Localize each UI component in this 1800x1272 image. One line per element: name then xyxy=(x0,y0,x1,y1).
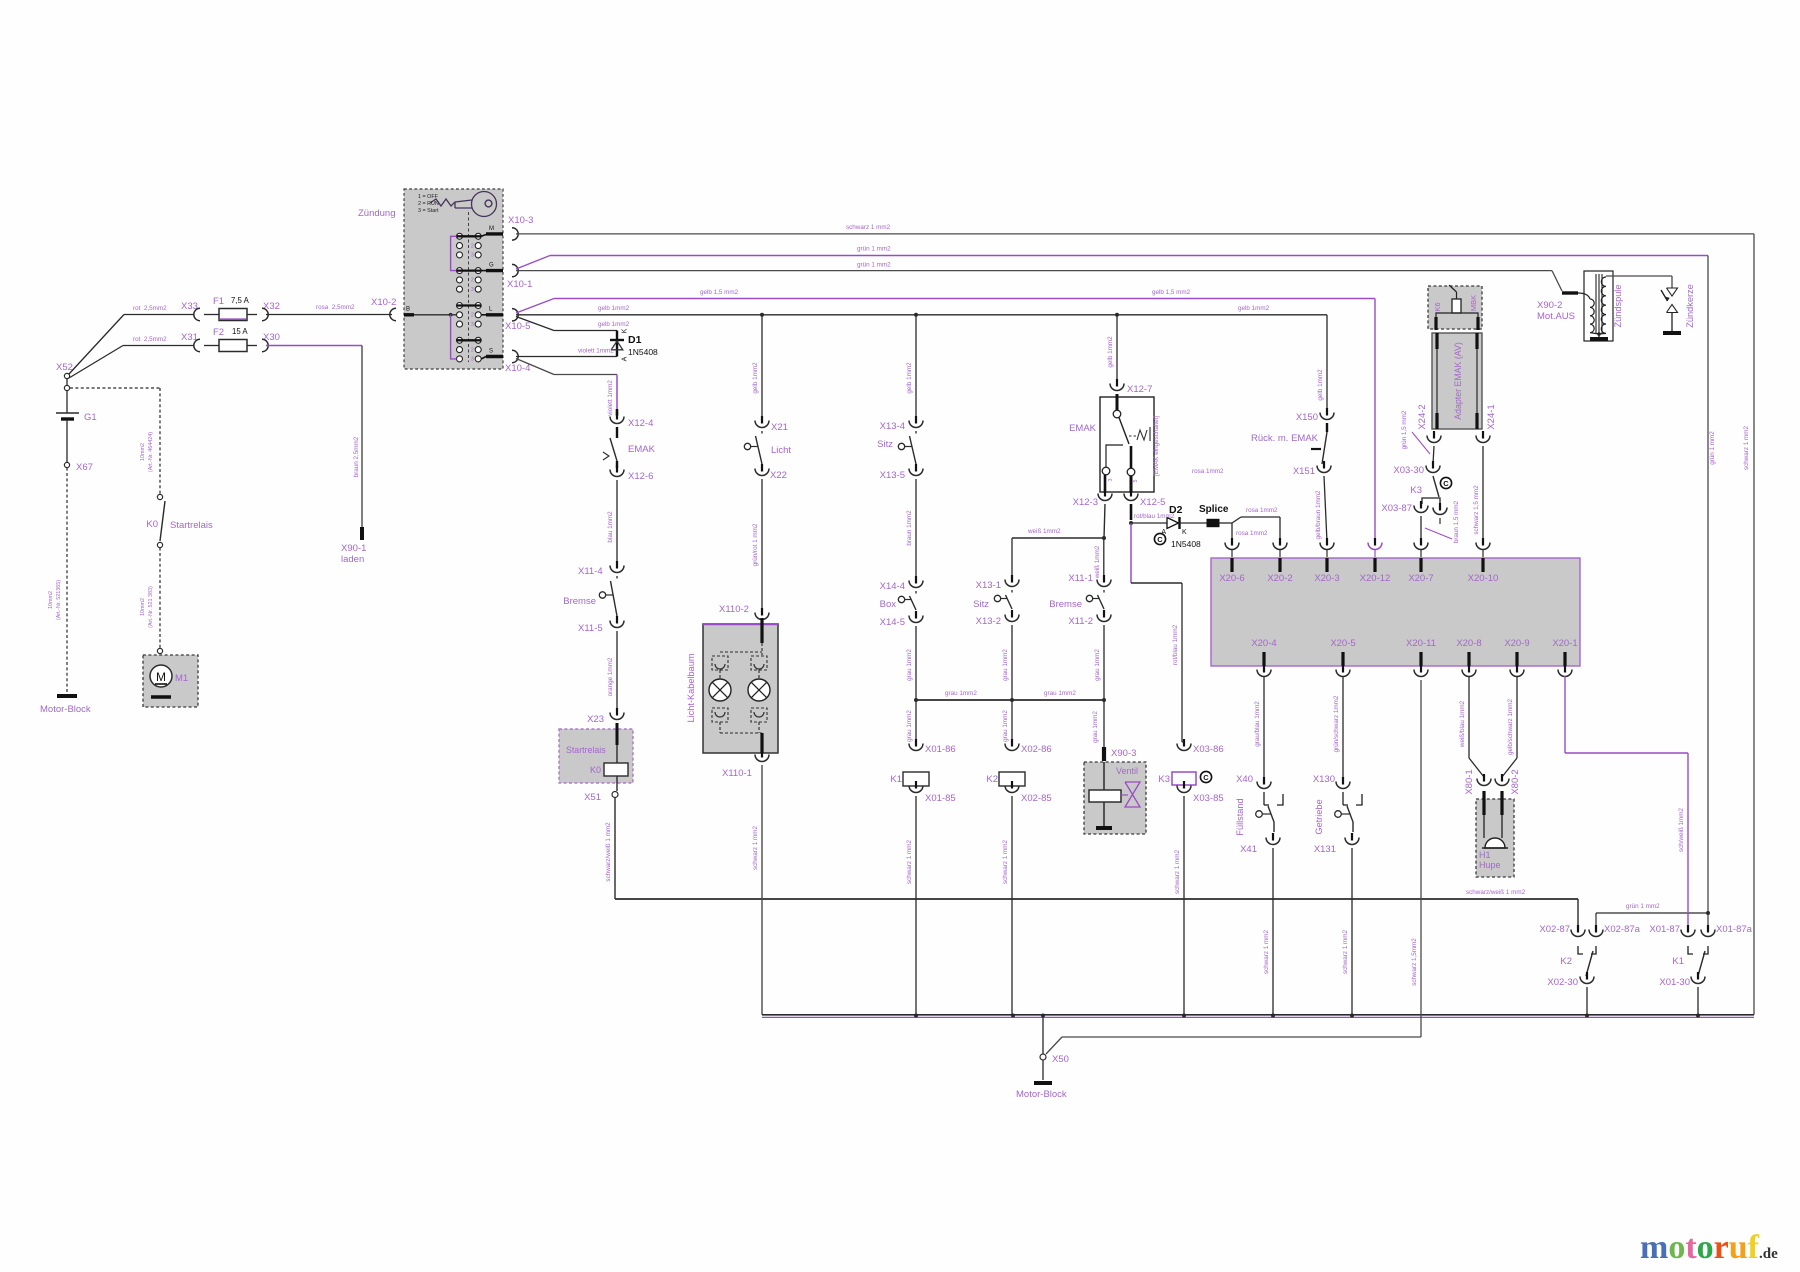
svg-text:X13-5: X13-5 xyxy=(880,470,905,481)
diode D1 1N5408 xyxy=(616,331,618,357)
svg-text:X51: X51 xyxy=(584,792,601,803)
svg-text:X22: X22 xyxy=(770,470,787,481)
svg-text:X10-3: X10-3 xyxy=(508,215,533,226)
wire schwarz/weiss 1mm2 down xyxy=(614,798,616,900)
svg-text:K3: K3 xyxy=(1158,774,1170,785)
svg-text:X20-8: X20-8 xyxy=(1456,638,1481,649)
svg-text:X02-30: X02-30 xyxy=(1547,977,1578,988)
svg-text:grün 1,5 mm2: grün 1,5 mm2 xyxy=(1401,410,1408,449)
ignition contacts group M xyxy=(457,233,463,239)
svg-text:D2: D2 xyxy=(1169,504,1183,516)
svg-text:X03-87: X03-87 xyxy=(1381,503,1412,514)
wire gruen 1mm2 (purple) to right edge xyxy=(516,256,550,270)
svg-text:rosa 1mm2: rosa 1mm2 xyxy=(1236,530,1268,537)
pin X20-2 xyxy=(1278,558,1281,572)
wire violett 1mm2 to X12-4 xyxy=(516,359,554,375)
svg-text:X11-1: X11-1 xyxy=(1068,573,1093,584)
svg-text:schwarz 1,5 mm2: schwarz 1,5 mm2 xyxy=(1473,485,1480,535)
wire X20-11 down xyxy=(1420,665,1422,673)
svg-text:weiß 1mm2: weiß 1mm2 xyxy=(1027,528,1061,535)
connector X41 xyxy=(1272,833,1274,841)
svg-text:K2: K2 xyxy=(986,774,998,785)
wire gelb 1mm2 main horizontal xyxy=(516,314,1327,316)
wire gelb 1,5mm2 (purple) to X20-12 xyxy=(516,299,554,314)
wire rosa 1mm2 to X20-6 xyxy=(1219,522,1232,524)
svg-text:(Art.-Nr. 464424): (Art.-Nr. 464424) xyxy=(148,432,154,472)
svg-text:gelb 1mm2: gelb 1mm2 xyxy=(1238,305,1270,312)
svg-text:3: 3 xyxy=(471,253,474,259)
svg-text:X01-85: X01-85 xyxy=(925,793,956,804)
svg-text:X03-30: X03-30 xyxy=(1393,465,1424,476)
svg-text:schwarz 1 mm2: schwarz 1 mm2 xyxy=(1342,929,1349,974)
svg-text:blau 1mm2: blau 1mm2 xyxy=(607,511,614,543)
bus schwarz/weiss 1mm2 horizontal xyxy=(615,898,1578,900)
svg-text:Sitz: Sitz xyxy=(973,599,989,610)
ignition internal link M-G xyxy=(451,236,457,270)
svg-text:K3: K3 xyxy=(1410,485,1422,496)
adapter EMAK (AV) xyxy=(1432,333,1482,429)
svg-text:X80-2: X80-2 xyxy=(1510,769,1521,794)
connector X50 to Motor-Block xyxy=(1042,1017,1044,1054)
svg-text:grün/schwarz 1mm2: grün/schwarz 1mm2 xyxy=(1333,695,1340,752)
connector X12-5 xyxy=(1130,489,1132,497)
svg-text:1 = OFF: 1 = OFF xyxy=(418,194,439,200)
svg-text:X02-87: X02-87 xyxy=(1539,924,1570,935)
svg-text:weiß/blau 1mm2: weiß/blau 1mm2 xyxy=(1459,700,1466,748)
wire braun 1mm2 xyxy=(915,479,917,580)
svg-text:7,5 A: 7,5 A xyxy=(231,296,250,305)
terminal M xyxy=(481,235,486,237)
pin X20-4 xyxy=(1262,652,1265,666)
svg-text:X24-1: X24-1 xyxy=(1486,404,1497,429)
svg-text:X14-4: X14-4 xyxy=(880,581,905,592)
svg-text:EMAK: EMAK xyxy=(628,444,656,455)
pin X20-7 xyxy=(1419,558,1422,572)
svg-text:X52: X52 xyxy=(56,362,73,373)
svg-text:rosa 1mm2: rosa 1mm2 xyxy=(1246,507,1278,514)
svg-text:M: M xyxy=(156,670,166,684)
svg-text:X21: X21 xyxy=(771,422,788,433)
svg-text:[EMAK eingeschaltet]: [EMAK eingeschaltet] xyxy=(1153,416,1160,476)
svg-text:MBK: MBK xyxy=(1469,295,1478,311)
svg-text:H1: H1 xyxy=(1479,850,1491,860)
ignition contacts group S xyxy=(457,337,463,343)
svg-text:gelb 1,5 mm2: gelb 1,5 mm2 xyxy=(1152,289,1191,296)
svg-text:Bremse: Bremse xyxy=(1049,599,1082,610)
svg-text:X02-85: X02-85 xyxy=(1021,793,1052,804)
wire grau 1mm2 to bus xyxy=(1011,625,1013,700)
svg-text:X12-3: X12-3 xyxy=(1073,497,1098,508)
svg-text:10mm2: 10mm2 xyxy=(48,591,54,609)
wire gruen/schwarz 1mm2 xyxy=(1342,665,1344,673)
svg-text:(Art.-Nr. 521 383): (Art.-Nr. 521 383) xyxy=(148,586,154,628)
svg-text:C: C xyxy=(1203,773,1209,782)
connector X21 xyxy=(761,416,763,424)
svg-text:EMAK: EMAK xyxy=(1069,423,1097,434)
svg-text:Sitz: Sitz xyxy=(877,439,893,450)
motor M1 xyxy=(143,655,198,707)
connector X131 xyxy=(1351,833,1353,841)
svg-text:X130: X130 xyxy=(1313,774,1335,785)
wire gruen vertical right xyxy=(1707,256,1709,932)
svg-text:grün 1 mm2: grün 1 mm2 xyxy=(857,246,891,253)
svg-text:schwarz 1,5mm2: schwarz 1,5mm2 xyxy=(1411,938,1418,986)
switch box EMAK eingeschaltet xyxy=(1100,397,1154,492)
svg-text:X13-4: X13-4 xyxy=(880,421,905,432)
svg-text:grün 1 mm2: grün 1 mm2 xyxy=(1626,903,1660,910)
svg-text:K2: K2 xyxy=(1560,956,1572,967)
svg-text:braun 1mm2: braun 1mm2 xyxy=(906,510,913,546)
svg-text:X20-12: X20-12 xyxy=(1360,573,1391,584)
svg-text:X20-5: X20-5 xyxy=(1330,638,1355,649)
svg-text:X12-7: X12-7 xyxy=(1127,384,1152,395)
wire schwarz 1mm2 top bus xyxy=(516,233,1754,235)
svg-text:X110-1: X110-1 xyxy=(722,768,752,779)
svg-text:Motor-Block: Motor-Block xyxy=(40,704,91,715)
terminal B and internal feed xyxy=(404,313,414,316)
svg-text:K: K xyxy=(622,328,629,333)
wire gelb 1mm2 down to X150 xyxy=(1326,315,1328,412)
connector X22 xyxy=(761,464,763,472)
connector X11-1 xyxy=(1103,575,1105,583)
svg-text:Mot.AUS: Mot.AUS xyxy=(1537,311,1575,322)
wire gelb 1mm2 to X21 xyxy=(761,315,763,419)
wire grau to K1 xyxy=(915,700,917,742)
wire schwarz 1mm2 down to bus xyxy=(761,765,763,1015)
connector X13-1 xyxy=(1011,575,1013,583)
svg-text:motoruf.de: motoruf.de xyxy=(1640,1229,1778,1266)
svg-text:2: 2 xyxy=(471,243,474,249)
svg-text:grau 1mm2: grau 1mm2 xyxy=(1002,649,1009,681)
svg-text:X01-87a: X01-87a xyxy=(1716,924,1753,935)
wire braun 1,5mm2 to X20-7 xyxy=(1420,516,1422,542)
svg-text:1N5408: 1N5408 xyxy=(1171,539,1201,549)
wire X24-2 to X03-30 xyxy=(1433,446,1434,464)
svg-text:2 = RUN: 2 = RUN xyxy=(418,201,439,207)
svg-text:F2: F2 xyxy=(213,327,224,338)
wire X32 to X10-2 (rosa 2,5mm2) xyxy=(266,314,392,316)
connector X51 xyxy=(612,792,618,798)
wire rot/blau join X03-86 xyxy=(1182,741,1184,743)
svg-text:X24-2: X24-2 xyxy=(1417,404,1428,429)
svg-text:violett 1mm2: violett 1mm2 xyxy=(578,348,614,355)
svg-text:X131: X131 xyxy=(1314,844,1336,855)
svg-text:Getriebe: Getriebe xyxy=(1314,799,1324,834)
svg-text:M: M xyxy=(489,226,494,232)
wire schwarz right edge down xyxy=(1753,234,1755,1015)
svg-text:10mm2: 10mm2 xyxy=(140,443,146,461)
wire weiss/blau 1mm2 to X80-1 xyxy=(1468,665,1470,673)
svg-text:Rück. m. EMAK: Rück. m. EMAK xyxy=(1251,433,1319,444)
svg-text:gelb 1mm2: gelb 1mm2 xyxy=(752,362,759,394)
connector X03-86 xyxy=(1183,739,1185,747)
svg-text:K6: K6 xyxy=(1433,302,1442,311)
terminal L xyxy=(481,314,486,316)
connector block X20 xyxy=(1211,558,1580,666)
connector X03-30 xyxy=(1432,461,1434,469)
svg-text:grau 1mm2: grau 1mm2 xyxy=(1044,690,1076,697)
key icon xyxy=(472,192,497,217)
svg-text:X11-4: X11-4 xyxy=(578,566,603,577)
wire gelb 1mm2 to diode D1 xyxy=(516,317,554,331)
connector X110-1 xyxy=(761,750,763,758)
pin X20-8 xyxy=(1467,652,1470,666)
svg-text:braun 2,5mm2: braun 2,5mm2 xyxy=(353,436,360,477)
svg-text:X151: X151 xyxy=(1293,466,1315,477)
wire grau 1mm2 to Ventil xyxy=(1103,700,1105,747)
wire schwarz/weiss purple from X20-1 xyxy=(1564,665,1566,673)
svg-text:X20-2: X20-2 xyxy=(1267,573,1292,584)
svg-text:X10-2: X10-2 xyxy=(371,297,396,308)
svg-text:X20-9: X20-9 xyxy=(1504,638,1529,649)
svg-text:gelb/schwarz 1mm2: gelb/schwarz 1mm2 xyxy=(1507,699,1514,755)
wire violett 1mm2 to D1 anode xyxy=(516,356,617,358)
svg-text:gelb 1mm2: gelb 1mm2 xyxy=(906,362,913,394)
svg-text:2: 2 xyxy=(471,347,474,353)
relay contact K2 xyxy=(1577,925,1579,933)
ignition switch Zuendung box xyxy=(404,189,503,369)
svg-text:X01-30: X01-30 xyxy=(1659,977,1690,988)
lamp 2 xyxy=(748,679,770,701)
svg-text:2: 2 xyxy=(471,278,474,284)
diode D2 1N5408 xyxy=(1131,522,1167,524)
connector X13-2 xyxy=(1011,610,1013,618)
svg-text:gelb 1mm2: gelb 1mm2 xyxy=(1317,369,1324,401)
svg-text:grau 1mm2: grau 1mm2 xyxy=(906,649,913,681)
wire gelb/braun 1mm2 xyxy=(1324,476,1327,542)
svg-text:5: 5 xyxy=(1133,480,1139,483)
svg-text:laden: laden xyxy=(341,554,364,565)
pin X20-3 xyxy=(1325,558,1328,572)
pin X20-9 xyxy=(1515,652,1518,666)
svg-text:orange 1mm2: orange 1mm2 xyxy=(607,657,614,696)
wire rosa 1mm2 to X20-2 xyxy=(1232,517,1241,523)
svg-text:M1: M1 xyxy=(175,673,188,684)
svg-text:3: 3 xyxy=(471,357,474,363)
connector X12-6 xyxy=(616,465,618,473)
svg-text:schwarz 1 mm2: schwarz 1 mm2 xyxy=(906,839,913,884)
ignition contacts group L xyxy=(457,303,463,309)
wire grau to K2 xyxy=(1011,700,1013,742)
svg-text:X12-4: X12-4 xyxy=(628,418,653,429)
connector X40 xyxy=(1263,777,1265,785)
svg-text:Startrelais: Startrelais xyxy=(170,520,213,531)
svg-text:X20-7: X20-7 xyxy=(1408,573,1433,584)
junction dots bottom bus xyxy=(914,1014,918,1018)
lamp harness Licht-Kabelbaum xyxy=(703,624,778,753)
svg-text:schwarz/weiß 1 mm2: schwarz/weiß 1 mm2 xyxy=(1466,889,1526,896)
wire grau 1mm2 to bus xyxy=(915,626,917,700)
wire gelb 1,5mm2 arc X20-12 xyxy=(1374,538,1376,546)
svg-text:3: 3 xyxy=(1108,479,1114,482)
wire schwarz 1mm2 to bottom bus xyxy=(1272,848,1274,1016)
wire gelb 1mm2 to X13-4 xyxy=(915,315,917,419)
svg-text:Ventil: Ventil xyxy=(1116,766,1138,776)
svg-text:S: S xyxy=(489,349,493,355)
pin X20-11 xyxy=(1419,652,1422,666)
svg-text:grün/rot 1 mm2: grün/rot 1 mm2 xyxy=(752,523,759,566)
svg-text:G: G xyxy=(489,263,494,269)
svg-text:X20-6: X20-6 xyxy=(1219,573,1244,584)
svg-text:Hupe: Hupe xyxy=(1479,860,1501,870)
wire X52 to K0 (10mm2, dashed) xyxy=(70,387,160,389)
connector X24-2 xyxy=(1433,431,1435,439)
svg-text:schwarz 1 mm2: schwarz 1 mm2 xyxy=(752,825,759,870)
connector X13-4 xyxy=(915,416,917,424)
relay contact K1 xyxy=(1687,925,1689,933)
splice xyxy=(1180,522,1208,524)
wire schwarz 1mm2 K3 to bus xyxy=(1183,796,1185,1015)
svg-text:2: 2 xyxy=(471,313,474,319)
svg-text:Adapter EMAK (AV): Adapter EMAK (AV) xyxy=(1453,342,1463,420)
svg-text:rot/blau 1mm2: rot/blau 1mm2 xyxy=(1172,624,1179,665)
wire schwarz 1mm2 to bottom bus xyxy=(1351,848,1353,1016)
svg-text:X50: X50 xyxy=(1052,1054,1069,1065)
svg-text:X01-86: X01-86 xyxy=(925,744,956,755)
svg-text:X20-11: X20-11 xyxy=(1406,638,1436,649)
svg-text:10mm2: 10mm2 xyxy=(140,598,146,616)
svg-text:K1: K1 xyxy=(890,774,902,785)
svg-text:F1: F1 xyxy=(213,296,224,307)
node X67 xyxy=(64,462,69,467)
terminal X90-1 laden xyxy=(360,527,364,540)
horn H1 Hupe xyxy=(1476,799,1514,877)
svg-text:rosa 1mm2: rosa 1mm2 xyxy=(1192,468,1224,475)
svg-text:X11-2: X11-2 xyxy=(1068,616,1093,627)
svg-text:Splice: Splice xyxy=(1199,504,1229,515)
svg-text:weiß 1mm2: weiß 1mm2 xyxy=(1094,545,1101,579)
wire grau/blau 1mm2 xyxy=(1263,665,1265,673)
svg-text:X14-5: X14-5 xyxy=(880,617,905,628)
svg-text:B: B xyxy=(406,307,410,313)
battery G1 xyxy=(66,391,68,413)
svg-text:X13-2: X13-2 xyxy=(976,616,1001,627)
connector X02-86 xyxy=(1011,739,1013,747)
wire grau 1mm2 to bus xyxy=(1103,625,1105,700)
connector X90-2 Mot.AUS xyxy=(1562,291,1578,294)
svg-text:X90-2: X90-2 xyxy=(1537,300,1562,311)
svg-text:X40: X40 xyxy=(1236,774,1253,785)
ignition internal link B-S xyxy=(451,315,457,359)
connector X90-3 xyxy=(1102,747,1106,761)
svg-text:Motor-Block: Motor-Block xyxy=(1016,1089,1067,1100)
svg-text:Startrelais: Startrelais xyxy=(566,745,606,755)
ignition contacts group G xyxy=(457,268,463,274)
svg-text:C: C xyxy=(1157,535,1163,544)
svg-text:grün 1 mm2: grün 1 mm2 xyxy=(857,262,891,269)
connector X24-1 xyxy=(1482,431,1484,439)
svg-text:15 A: 15 A xyxy=(232,327,248,336)
relay Startrelais K0 xyxy=(559,729,633,783)
svg-text:3: 3 xyxy=(471,287,474,293)
svg-text:Zündung: Zündung xyxy=(358,208,396,219)
ground Motor-Block xyxy=(57,694,77,698)
connector X12-3 xyxy=(1104,489,1106,497)
pin X20-10 xyxy=(1481,558,1484,572)
valve Ventil xyxy=(1084,762,1146,834)
svg-text:X110-2: X110-2 xyxy=(719,604,749,615)
wire blau 1mm2 xyxy=(616,480,618,564)
svg-text:X10-4: X10-4 xyxy=(505,363,530,374)
svg-text:grau 1mm2: grau 1mm2 xyxy=(906,710,913,742)
connector X03-85 xyxy=(1183,781,1185,789)
connector X13-5 xyxy=(915,464,917,472)
svg-text:X01-87: X01-87 xyxy=(1649,924,1680,935)
svg-text:Zündspule: Zündspule xyxy=(1613,285,1623,328)
connector X110-2 xyxy=(761,608,763,616)
wire gruen 1mm2 horizontal xyxy=(1596,912,1708,914)
connector X80-1 xyxy=(1483,774,1485,782)
connector X03-87 xyxy=(1420,501,1422,509)
wire X20-11 to X50 (schwarz 1,5mm2) xyxy=(1046,1037,1062,1054)
wire X30 to X90-1 (braun 2,5mm2) xyxy=(266,345,362,347)
connector X151 xyxy=(1323,461,1325,469)
svg-text:A: A xyxy=(622,356,629,361)
connector X01-85 xyxy=(915,781,917,789)
svg-text:gelb 1,5 mm2: gelb 1,5 mm2 xyxy=(700,289,739,296)
connector X80-2 xyxy=(1501,774,1503,782)
ignition coil Zuendspule xyxy=(1584,271,1613,341)
svg-text:Zündkerze: Zündkerze xyxy=(1685,284,1695,327)
connector X12-4 xyxy=(616,412,618,420)
svg-text:X02-87a: X02-87a xyxy=(1604,924,1641,935)
svg-text:grau 1mm2: grau 1mm2 xyxy=(945,690,977,697)
wire gruen/rot 1mm2 xyxy=(761,479,763,612)
svg-text:schwarz 1 mm2: schwarz 1 mm2 xyxy=(1002,839,1009,884)
svg-text:Licht: Licht xyxy=(771,445,791,456)
svg-text:X20-10: X20-10 xyxy=(1468,573,1499,584)
wire K0 to M1 (10mm2, dashed) xyxy=(159,548,161,648)
label gruen 1,5mm2 callout xyxy=(1412,432,1430,454)
lamp 1 xyxy=(709,679,731,701)
svg-text:X12-5: X12-5 xyxy=(1140,497,1165,508)
wire schwarz 1mm2 K2 to bus xyxy=(1011,796,1013,1015)
svg-text:schwarz/weiß 1 mm2: schwarz/weiß 1 mm2 xyxy=(605,822,612,882)
svg-text:C: C xyxy=(1443,479,1449,488)
svg-text:X03-86: X03-86 xyxy=(1193,744,1224,755)
svg-text:sch/weiß 1mm2: sch/weiß 1mm2 xyxy=(1678,807,1685,852)
connector X12-7 xyxy=(1116,379,1118,387)
connector X02-85 xyxy=(1011,781,1013,789)
svg-text:X13-1: X13-1 xyxy=(976,580,1001,591)
connector X11-4 xyxy=(616,561,618,569)
svg-text:X23: X23 xyxy=(587,714,604,725)
svg-text:1N5408: 1N5408 xyxy=(628,347,658,357)
svg-text:grau 1mm2: grau 1mm2 xyxy=(1094,649,1101,681)
svg-text:grau/blau 1mm2: grau/blau 1mm2 xyxy=(1254,701,1261,747)
relay K6 MBK box xyxy=(1428,286,1482,329)
svg-text:X80-1: X80-1 xyxy=(1464,769,1475,794)
wire gelb 1mm2 to X12-7 xyxy=(1116,315,1118,382)
connector X150 xyxy=(1326,408,1328,416)
connector X130 xyxy=(1342,777,1344,785)
svg-text:rot 2,5mm2: rot 2,5mm2 xyxy=(133,336,167,343)
connector X11-5 xyxy=(616,616,618,624)
wire X67 to Motor-Block (10mm2) xyxy=(66,468,68,692)
svg-text:rosa 2,5mm2: rosa 2,5mm2 xyxy=(316,304,355,311)
wire weiss to X13-1 xyxy=(1011,538,1013,578)
svg-text:X67: X67 xyxy=(76,462,93,473)
svg-text:X20-3: X20-3 xyxy=(1314,573,1339,584)
terminal G xyxy=(481,270,486,272)
connector X14-4 xyxy=(915,576,917,584)
bus black bottom xyxy=(762,1014,1754,1016)
svg-text:X20-1: X20-1 xyxy=(1552,638,1577,649)
connector X01-86 xyxy=(915,739,917,747)
svg-text:Box: Box xyxy=(880,599,897,610)
wire coil to spark plug xyxy=(1606,275,1672,277)
svg-text:grün 1 mm2: grün 1 mm2 xyxy=(1709,431,1716,465)
